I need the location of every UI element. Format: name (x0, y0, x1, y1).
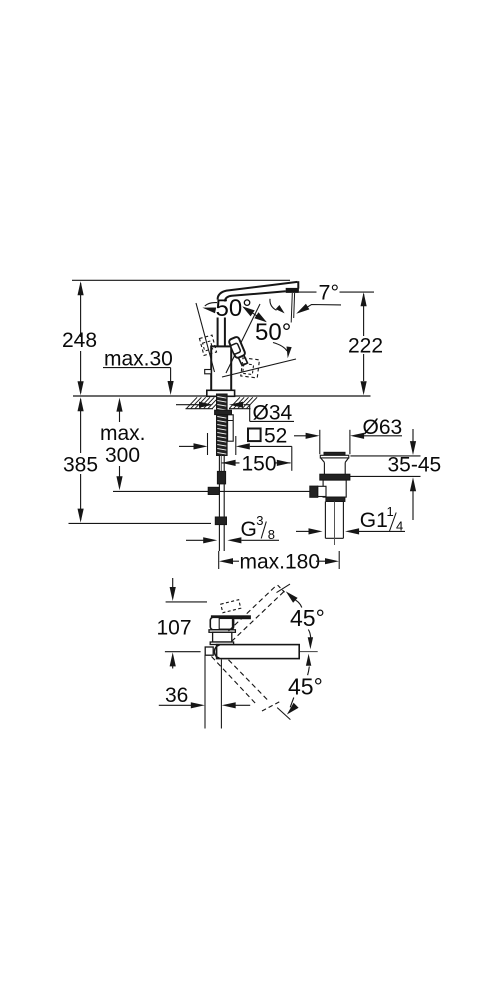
shank center line (220, 456, 222, 475)
faucet neck lines (217, 318, 219, 347)
svg-text:45°: 45° (290, 605, 325, 631)
hose end reference line 385 (69, 522, 212, 524)
svg-text:35-45: 35-45 (388, 454, 442, 477)
drain plug top (324, 452, 345, 455)
45 up reference line (277, 584, 291, 593)
extension line at 150 (291, 446, 293, 470)
dimension 150 (222, 460, 236, 466)
dashed handle position right outer (241, 358, 260, 378)
plan handle bar (211, 616, 250, 619)
handle face square (230, 343, 241, 355)
plan flange band (209, 630, 235, 633)
svg-text:G1: G1 (360, 509, 388, 532)
dimension 52 arrows (179, 445, 194, 447)
counter top line (73, 395, 371, 397)
drain extension lines O63 (319, 430, 321, 454)
svg-text:150: 150 (242, 453, 277, 476)
plan body inner rect (219, 619, 232, 630)
mounting nut (215, 410, 232, 414)
plan spout bar (217, 645, 300, 659)
45 lower arc arrows (306, 654, 311, 666)
svg-text:7°: 7° (319, 281, 340, 305)
plan body lower block (213, 632, 232, 642)
spout aerator (286, 288, 298, 292)
drain lower ring (326, 497, 345, 501)
rod coupling at pipe (208, 487, 219, 494)
45 upper arc arrows (286, 591, 298, 602)
square symbol 52 (248, 429, 261, 442)
supply pipe lower (218, 525, 220, 551)
svg-text:385: 385 (63, 454, 98, 477)
supply pipe (218, 456, 220, 518)
faucet body (211, 346, 231, 392)
svg-text:8: 8 (268, 527, 275, 542)
popup rod horizontal line (113, 490, 310, 492)
arc arrow into left rotation line (205, 303, 217, 306)
line 35-45 lower (350, 475, 421, 477)
plan pivot round end (214, 645, 219, 658)
svg-text:max.: max. (100, 422, 146, 445)
line 35-45 upper (350, 455, 420, 457)
7deg leader to stream (299, 305, 341, 313)
left dimension line 248/385 (80, 283, 82, 337)
rotation line left (196, 303, 215, 372)
hose connector block (217, 471, 225, 484)
dimension 34 arrows (176, 404, 199, 406)
plan body upper block (210, 617, 233, 630)
svg-text:max.180: max.180 (240, 551, 321, 574)
drain tailpipe (324, 502, 326, 539)
dimension O63 arrows (294, 435, 306, 437)
svg-text:300: 300 (105, 444, 140, 467)
svg-text:Ø34: Ø34 (253, 401, 293, 424)
plan spout center line (300, 651, 318, 653)
counter hatching left (187, 397, 198, 408)
drain seal ring (320, 474, 350, 480)
stream angle arc arrow (270, 299, 277, 311)
rotation line middle (226, 304, 260, 373)
double arc arrow on middle rotation line (244, 307, 266, 321)
handle stem (237, 353, 247, 366)
svg-text:107: 107 (157, 617, 192, 640)
dimension line 222 (363, 294, 365, 306)
45 down reference line (277, 708, 290, 720)
dimension G3/8 arrows (186, 539, 204, 541)
plan dashed handle 45 up edge2 (232, 592, 284, 642)
svg-text:45°: 45° (288, 674, 323, 700)
plan dimension 107 (172, 578, 174, 589)
handle lever solid (228, 336, 245, 359)
arc arrow from right 50deg to rotation line (273, 343, 287, 352)
dashed handle position left inner (203, 341, 213, 351)
svg-text:3: 3 (256, 513, 263, 528)
G3/8 connector end (215, 517, 226, 525)
counter bottom line right (229, 408, 251, 410)
rod lever block light (318, 486, 326, 496)
dashed handle position left outer (199, 335, 216, 355)
drain upper cylinder (323, 462, 325, 474)
svg-text:1: 1 (387, 504, 394, 519)
svg-text:52: 52 (264, 425, 287, 448)
plan dashed handle 45 up edge1 (229, 585, 278, 631)
svg-text:G: G (241, 518, 257, 541)
plan dashed knob top (221, 600, 241, 613)
top extension line (spout height reference) (72, 279, 290, 281)
plan left tab (205, 647, 213, 655)
dimension 35-45 (412, 429, 414, 443)
drain flange (320, 455, 349, 458)
svg-text:50°: 50° (255, 319, 291, 346)
dimension max.300 (116, 398, 122, 412)
spout tip edge (297, 281, 299, 288)
dimension max.180 (218, 551, 220, 569)
7deg reference line to 222 (299, 291, 317, 293)
base flange (207, 390, 235, 396)
svg-text:36: 36 (165, 684, 188, 707)
faucet spout inner edge (225, 291, 286, 301)
threaded shank (217, 394, 228, 456)
counter hatching right (229, 397, 240, 408)
svg-text:222: 222 (348, 334, 383, 357)
tailpipe center line (334, 502, 336, 546)
dimension 52 extension lines (207, 433, 209, 455)
counter bottom line left (186, 408, 214, 410)
plan dashed handle 45 up end cap (278, 585, 285, 592)
water stream lines (291, 293, 292, 323)
plan flange band 2 (210, 642, 233, 645)
45 down end cap dashes (262, 701, 281, 711)
plan dashed handle 45 down edge1 (229, 660, 269, 701)
faucet spout outer edge (218, 282, 298, 300)
pull rod lower end (228, 415, 234, 441)
body left tab (205, 370, 212, 374)
dashed handle position right inner (243, 364, 254, 375)
svg-text:248: 248 (62, 329, 97, 352)
plan dimension 36 (204, 655, 206, 729)
drain body (323, 480, 346, 497)
plan dashed handle 45 down edge2 (212, 657, 257, 705)
rod lever block dark (310, 486, 318, 497)
dimension G1 1/4 arrows (296, 530, 310, 532)
label leader O34 (249, 405, 251, 422)
rotation line right (222, 359, 296, 377)
